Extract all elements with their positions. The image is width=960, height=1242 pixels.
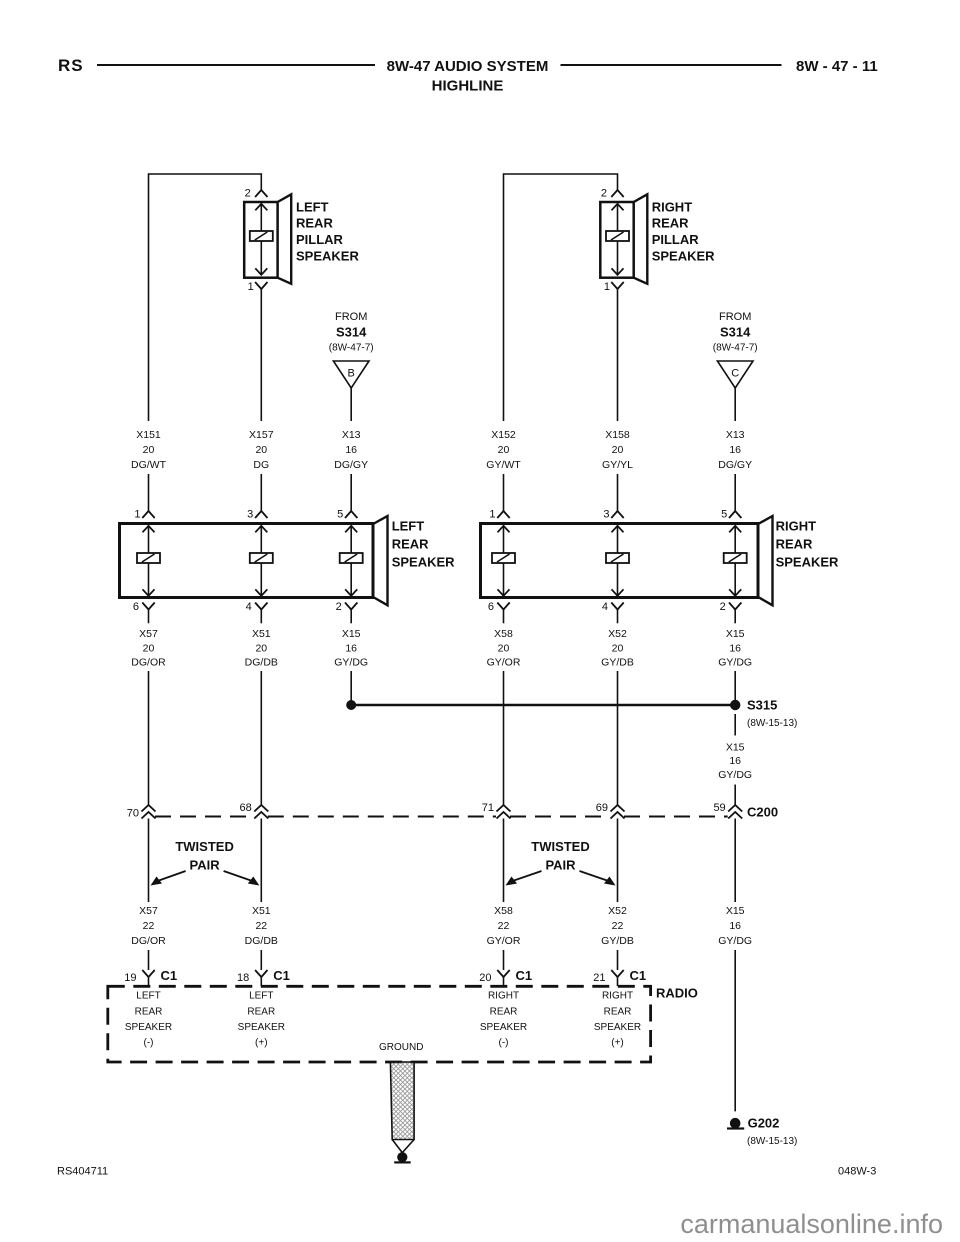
svg-text:1: 1 — [248, 281, 254, 293]
svg-text:20: 20 — [498, 444, 510, 456]
svg-text:68: 68 — [240, 802, 252, 814]
ground strap hatched — [390, 1062, 414, 1140]
wire jumper left: X151 to left pillar speaker pin 2 — [149, 174, 262, 421]
splice S315 bus wire — [351, 704, 735, 707]
svg-text:(-): (-) — [144, 1038, 154, 1049]
left rear speaker voice coil col — [137, 553, 160, 563]
svg-text:DG/OR: DG/OR — [131, 935, 166, 947]
svg-text:X51: X51 — [252, 905, 271, 917]
svg-text:3: 3 — [603, 508, 609, 520]
svg-text:GY/OR: GY/OR — [487, 656, 521, 668]
wire from C200 pin 69 — [617, 819, 619, 903]
twisted pair left arrow left — [158, 871, 186, 881]
svg-text:SPEAKER: SPEAKER — [392, 555, 455, 570]
left rear speaker internal circuit column pin 4 — [260, 526, 262, 554]
wire to radio pin 20 — [503, 950, 505, 970]
svg-text:16: 16 — [729, 642, 741, 654]
radio label left rear speaker plus — [238, 991, 285, 1049]
svg-text:X15: X15 — [342, 628, 361, 640]
svg-text:REAR: REAR — [135, 1006, 163, 1017]
right rear speaker pin 6 connector — [497, 603, 509, 610]
svg-text:20: 20 — [255, 642, 267, 654]
svg-text:RIGHT: RIGHT — [776, 519, 817, 534]
svg-text:(8W-15-13): (8W-15-13) — [747, 1136, 797, 1147]
svg-text:(+): (+) — [255, 1038, 268, 1049]
svg-text:C1: C1 — [161, 968, 178, 983]
svg-text:(+): (+) — [611, 1038, 624, 1049]
svg-text:X57: X57 — [139, 628, 158, 640]
right rear pillar speaker cone flap — [634, 194, 648, 283]
radio pin 19 connector — [142, 970, 154, 977]
svg-text:RADIO: RADIO — [656, 986, 698, 1001]
right rear speaker internal circuit column pin 6 — [503, 526, 505, 554]
svg-text:LEFT: LEFT — [136, 991, 160, 1002]
right rear speaker label — [776, 519, 839, 570]
svg-text:C: C — [731, 368, 739, 380]
left rear speaker pin 5 connector — [345, 511, 357, 518]
svg-text:16: 16 — [729, 920, 741, 932]
svg-text:20: 20 — [143, 444, 155, 456]
svg-text:X51: X51 — [252, 628, 271, 640]
svg-text:2: 2 — [720, 601, 726, 613]
svg-text:PAIR: PAIR — [545, 858, 576, 873]
svg-text:X58: X58 — [494, 905, 513, 917]
svg-text:3: 3 — [247, 508, 253, 520]
svg-text:SPEAKER: SPEAKER — [480, 1022, 527, 1033]
svg-text:carmanualsonline.info: carmanualsonline.info — [680, 1209, 943, 1239]
svg-text:B: B — [348, 368, 355, 380]
wire label X15 16 GY/DG left — [334, 628, 368, 669]
right rear speaker voice coil col — [606, 553, 629, 563]
svg-text:C1: C1 — [516, 968, 533, 983]
svg-text:16: 16 — [729, 444, 741, 456]
wire X15 to C200 — [734, 785, 736, 806]
svg-text:DG/WT: DG/WT — [131, 459, 167, 471]
wire X51 down to C200 — [260, 671, 262, 805]
svg-text:2: 2 — [245, 187, 251, 199]
right rear pillar speaker box — [600, 202, 633, 278]
left rear pillar speaker pin 1 connector — [255, 282, 267, 289]
svg-text:PAIR: PAIR — [190, 858, 221, 873]
left rear speaker pin 2 connector — [345, 603, 357, 610]
wire X58 down to C200 — [503, 671, 505, 805]
right rear speaker pin 1 connector — [497, 511, 509, 518]
svg-text:DG/DB: DG/DB — [245, 656, 278, 668]
svg-text:LEFT: LEFT — [249, 991, 273, 1002]
wire label X52 20 GY/DB — [601, 628, 634, 669]
header rule right — [561, 64, 782, 66]
ground terminal bar — [394, 1161, 411, 1163]
svg-text:X15: X15 — [726, 905, 745, 917]
left rear pillar speaker voice coil — [250, 231, 273, 241]
svg-text:PILLAR: PILLAR — [652, 232, 700, 247]
radio dashed box — [108, 986, 651, 1062]
junction dot left on S315 — [346, 700, 356, 710]
wire label X13 16 DG/GY left — [334, 429, 368, 471]
right rear pillar speaker pin 2 connector — [611, 190, 623, 197]
wire jumper right: X152 to right pillar speaker pin 2 — [504, 174, 618, 421]
svg-text:DG/OR: DG/OR — [131, 656, 166, 668]
left rear speaker internal circuit column pin 6 — [148, 526, 150, 554]
svg-text:X13: X13 — [342, 429, 361, 441]
wire X151 to speaker connector — [148, 474, 150, 511]
twisted pair right arrow right — [580, 871, 609, 881]
svg-text:G202: G202 — [748, 1116, 780, 1131]
right rear speaker internal circuit column pin 4 — [617, 526, 619, 554]
svg-text:X52: X52 — [608, 905, 627, 917]
svg-text:22: 22 — [143, 920, 155, 932]
svg-text:16: 16 — [345, 642, 357, 654]
radio label right rear speaker plus — [594, 991, 641, 1049]
svg-text:21: 21 — [593, 972, 605, 984]
svg-text:SPEAKER: SPEAKER — [296, 249, 359, 264]
wire X15 left to splice S315 — [350, 671, 352, 705]
left rear speaker cone flap — [374, 516, 388, 605]
right rear speaker pin 4 connector — [611, 603, 623, 610]
svg-text:REAR: REAR — [296, 216, 333, 231]
wire label X152 20 GY/WT — [486, 429, 521, 471]
svg-text:5: 5 — [721, 508, 727, 520]
ground terminal dot — [397, 1152, 407, 1162]
svg-text:C1: C1 — [273, 968, 290, 983]
svg-text:TWISTED: TWISTED — [531, 839, 590, 854]
svg-text:GROUND: GROUND — [379, 1042, 423, 1053]
svg-text:1: 1 — [604, 281, 610, 293]
svg-text:048W-3: 048W-3 — [838, 1166, 876, 1178]
svg-text:20: 20 — [479, 972, 491, 984]
twisted pair right label — [531, 839, 590, 873]
svg-text:(8W-47-7): (8W-47-7) — [713, 343, 758, 354]
svg-text:REAR: REAR — [490, 1006, 518, 1017]
svg-text:SPEAKER: SPEAKER — [594, 1022, 641, 1033]
svg-text:X158: X158 — [605, 429, 630, 441]
wire from C200 pin 70 — [148, 819, 150, 903]
wire to radio pin 18 — [260, 950, 262, 970]
wire X158 to speaker connector — [617, 474, 619, 511]
right rear pillar speaker internal wire and arrows — [617, 204, 619, 232]
svg-text:REAR: REAR — [776, 537, 813, 552]
svg-text:SPEAKER: SPEAKER — [652, 249, 715, 264]
wire label X52 22 GY/DB — [601, 905, 634, 947]
radio label left rear speaker minus — [125, 991, 172, 1049]
wire X13 right to speaker connector — [734, 474, 736, 511]
svg-text:69: 69 — [596, 802, 608, 814]
svg-text:HIGHLINE: HIGHLINE — [432, 78, 504, 95]
svg-text:RIGHT: RIGHT — [652, 199, 693, 214]
wire to radio pin 19 — [148, 950, 150, 970]
C200 pin 69 — [611, 805, 625, 812]
left rear speaker pin 3 connector — [255, 511, 267, 518]
connector C200 dashed line — [155, 816, 254, 818]
wire label X51 22 DG/DB — [245, 905, 278, 947]
wire label X15 16 GY/DG below S315 — [718, 741, 752, 781]
wire label X58 20 GY/OR — [487, 628, 521, 669]
svg-text:REAR: REAR — [652, 216, 689, 231]
wire X57 down to C200 — [148, 671, 150, 805]
right rear speaker cone flap — [759, 516, 773, 605]
svg-text:GY/DB: GY/DB — [601, 935, 634, 947]
left rear pillar speaker pin 2 connector — [255, 190, 267, 197]
svg-text:X151: X151 — [136, 429, 161, 441]
svg-text:GY/DG: GY/DG — [718, 656, 752, 668]
right rear speaker voice coil col — [492, 553, 515, 563]
svg-text:LEFT: LEFT — [296, 199, 329, 214]
svg-text:70: 70 — [127, 808, 139, 820]
svg-text:8W-47 AUDIO SYSTEM: 8W-47 AUDIO SYSTEM — [387, 58, 549, 75]
svg-text:X157: X157 — [249, 429, 274, 441]
wire X15 down to G202 — [734, 950, 736, 1111]
svg-text:20: 20 — [612, 642, 624, 654]
svg-text:RIGHT: RIGHT — [488, 991, 519, 1002]
C200 pin 59 — [728, 805, 742, 812]
right rear speaker internal circuit column pin 2 — [734, 526, 736, 554]
svg-text:GY/DB: GY/DB — [601, 656, 634, 668]
wire from C200 pin 71 — [503, 819, 505, 903]
svg-text:20: 20 — [612, 444, 624, 456]
left rear speaker voice coil col — [340, 553, 363, 563]
left rear speaker label — [392, 519, 455, 570]
svg-text:DG/GY: DG/GY — [718, 459, 752, 471]
svg-text:GY/OR: GY/OR — [487, 935, 521, 947]
svg-text:X57: X57 — [139, 905, 158, 917]
svg-text:1: 1 — [134, 508, 140, 520]
svg-text:16: 16 — [729, 755, 741, 767]
svg-text:4: 4 — [602, 601, 608, 613]
svg-text:GY/YL: GY/YL — [602, 459, 633, 471]
left rear pillar speaker internal wire and arrows — [260, 204, 262, 232]
wire from splice S314 feed B triangle — [350, 388, 352, 421]
left rear speaker pin 1 connector — [142, 511, 154, 518]
svg-text:22: 22 — [498, 920, 510, 932]
right rear speaker box — [481, 524, 759, 598]
ground G202 bar — [727, 1127, 744, 1129]
wire X152 to speaker connector — [503, 474, 505, 511]
splice S314 feed B label — [329, 311, 374, 354]
splice S314 feed C label — [713, 311, 758, 354]
twisted pair left arrow right — [224, 871, 253, 881]
wire S315 down — [734, 714, 736, 736]
wire to radio pin 21 — [617, 950, 619, 970]
wire label X158 20 GY/YL — [602, 429, 633, 471]
wire label X15 16 GY/DG bottom — [718, 905, 752, 947]
svg-text:X15: X15 — [726, 741, 745, 753]
svg-text:REAR: REAR — [392, 537, 429, 552]
C200 pin 71 — [497, 805, 511, 812]
svg-text:X15: X15 — [726, 628, 745, 640]
svg-text:GY/DG: GY/DG — [334, 656, 368, 668]
svg-text:RS: RS — [58, 56, 84, 75]
twisted pair right arrow left — [513, 871, 542, 881]
left rear pillar speaker box — [244, 202, 277, 278]
svg-text:2: 2 — [336, 601, 342, 613]
svg-text:SPEAKER: SPEAKER — [238, 1022, 285, 1033]
right rear speaker voice coil col — [724, 553, 747, 563]
header rule left — [97, 64, 375, 66]
svg-text:4: 4 — [246, 601, 252, 613]
svg-text:GY/DG: GY/DG — [718, 769, 752, 781]
svg-text:20: 20 — [143, 642, 155, 654]
wire from C200 pin 59 — [734, 819, 736, 903]
svg-text:(8W-47-7): (8W-47-7) — [329, 343, 374, 354]
wire label X15 16 GY/DG right — [718, 628, 752, 669]
right rear pillar speaker label — [652, 199, 715, 263]
svg-text:PILLAR: PILLAR — [296, 232, 344, 247]
wire label X51 20 DG/DB — [245, 628, 278, 669]
wire X13 left to speaker connector — [350, 474, 352, 511]
svg-text:19: 19 — [124, 972, 136, 984]
svg-text:C1: C1 — [630, 968, 647, 983]
svg-text:DG/DB: DG/DB — [245, 935, 278, 947]
svg-text:RS404711: RS404711 — [57, 1166, 108, 1178]
wire X52 down to C200 — [617, 671, 619, 805]
right rear pillar speaker voice coil — [606, 231, 629, 241]
splice S314 feed B triangle connector B — [333, 361, 369, 388]
radio pin 20 connector — [497, 970, 509, 977]
svg-text:16: 16 — [345, 444, 357, 456]
wire label X13 16 DG/GY right — [718, 429, 752, 471]
svg-text:8W - 47 - 11: 8W - 47 - 11 — [796, 58, 878, 75]
right rear speaker pin 2 connector — [729, 603, 741, 610]
wire X157 to speaker connector — [260, 474, 262, 511]
svg-text:71: 71 — [482, 802, 494, 814]
wire X15 right to splice S315 — [734, 671, 736, 705]
twisted pair left label — [175, 839, 234, 873]
left rear speaker pin 4 connector — [255, 603, 267, 610]
svg-text:REAR: REAR — [604, 1006, 632, 1017]
svg-text:X13: X13 — [726, 429, 745, 441]
svg-text:FROM: FROM — [719, 311, 751, 323]
right rear speaker pin 5 connector — [729, 511, 741, 518]
right rear pillar speaker pin 1 connector — [611, 282, 623, 289]
wire label X157 20 DG — [249, 429, 274, 471]
svg-text:DG: DG — [253, 459, 269, 471]
left rear speaker box — [120, 524, 374, 598]
C200 pin 70 — [142, 805, 156, 812]
wire label X151 20 DG/WT — [131, 429, 167, 471]
svg-text:GY/DG: GY/DG — [718, 935, 752, 947]
svg-text:X58: X58 — [494, 628, 513, 640]
junction dot S315 — [730, 700, 740, 710]
svg-text:S314: S314 — [336, 325, 367, 340]
svg-text:5: 5 — [337, 508, 343, 520]
svg-text:22: 22 — [612, 920, 624, 932]
svg-text:1: 1 — [489, 508, 495, 520]
svg-text:X152: X152 — [491, 429, 516, 441]
svg-text:X52: X52 — [608, 628, 627, 640]
wire from C200 pin 68 — [260, 819, 262, 903]
svg-text:2: 2 — [601, 187, 607, 199]
svg-text:REAR: REAR — [247, 1006, 275, 1017]
svg-text:C200: C200 — [747, 805, 778, 820]
svg-text:(-): (-) — [499, 1038, 509, 1049]
left rear speaker pin 6 connector — [142, 603, 154, 610]
svg-text:(8W-15-13): (8W-15-13) — [747, 718, 797, 729]
svg-text:LEFT: LEFT — [392, 519, 425, 534]
wire label X57 20 DG/OR — [131, 628, 166, 669]
svg-text:S315: S315 — [747, 698, 777, 713]
svg-text:TWISTED: TWISTED — [175, 839, 234, 854]
svg-text:20: 20 — [498, 642, 510, 654]
svg-text:SPEAKER: SPEAKER — [776, 555, 839, 570]
left rear speaker voice coil col — [250, 553, 273, 563]
C200 pin 68 — [254, 805, 268, 812]
svg-text:DG/GY: DG/GY — [334, 459, 368, 471]
radio label right rear speaker minus — [480, 991, 527, 1049]
svg-text:59: 59 — [713, 802, 725, 814]
radio pin 18 connector — [255, 970, 267, 977]
svg-text:S314: S314 — [720, 325, 751, 340]
left rear pillar speaker label — [296, 199, 359, 263]
svg-text:6: 6 — [488, 601, 494, 613]
ground G202 dot — [730, 1118, 741, 1129]
wire label X58 22 GY/OR — [487, 905, 521, 947]
radio pin 21 connector — [611, 970, 623, 977]
svg-text:6: 6 — [133, 601, 139, 613]
svg-text:SPEAKER: SPEAKER — [125, 1022, 172, 1033]
left rear speaker internal circuit column pin 2 — [350, 526, 352, 554]
svg-text:22: 22 — [255, 920, 267, 932]
ground strap funnel — [392, 1140, 414, 1153]
left rear pillar speaker cone flap — [278, 194, 292, 283]
svg-text:20: 20 — [255, 444, 267, 456]
right rear speaker pin 3 connector — [611, 511, 623, 518]
splice S314 feed C triangle connector C — [717, 361, 753, 388]
wire from splice S314 feed C triangle — [734, 388, 736, 421]
svg-text:FROM: FROM — [335, 311, 367, 323]
wire label X57 22 DG/OR — [131, 905, 166, 947]
svg-text:18: 18 — [237, 972, 249, 984]
svg-text:RIGHT: RIGHT — [602, 991, 633, 1002]
svg-text:GY/WT: GY/WT — [486, 459, 521, 471]
